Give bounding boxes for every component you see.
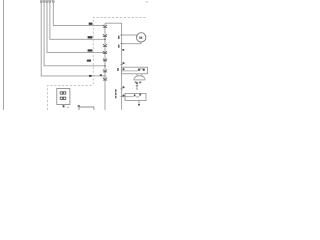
junction dot w4 [104, 39, 106, 40]
svg-text:M: M [139, 36, 142, 40]
wire colour code rot (93) [115, 89, 117, 92]
wire 5 [53, 3, 104, 26]
pointer needle [136, 87, 138, 89]
wire colour code rot (45.6) [118, 45, 120, 48]
wire number label w4 [88, 36, 93, 38]
diode D4 [103, 51, 107, 53]
horn H1 bell [134, 76, 146, 80]
junction wire5-chain [104, 75, 107, 77]
horn label a [135, 82, 137, 83]
control unit A1 box [57, 89, 70, 105]
A1 pin stub [62, 105, 64, 107]
pointer dot [136, 85, 138, 87]
wire 2 [44, 3, 105, 66]
dashed unit boundary right [93, 18, 145, 86]
terminal tick 121/44 [120, 43, 122, 45]
dashed unit boundary bottom left [48, 86, 94, 110]
wire chain top link [105, 23, 122, 110]
A1 pin label [63, 105, 65, 107]
S2 lever arc [136, 96, 140, 98]
motor feed wire upper [122, 34, 137, 36]
margin tick top right [146, 1, 148, 2]
terminal tick 121/35 [120, 34, 122, 36]
S2 actuator [138, 100, 140, 102]
K1 terminal 6 [138, 69, 140, 71]
wire number label w5 [89, 23, 93, 25]
wire 4 [50, 3, 105, 40]
wire number label w2 [87, 60, 91, 62]
S2 terminal L [134, 94, 136, 96]
wire left page border [3, 0, 5, 110]
horn label b [139, 82, 141, 84]
junction dot w3 [104, 52, 106, 53]
S2 terminal R [140, 94, 142, 96]
A1 aux label [67, 107, 69, 108]
diode D2 [103, 34, 107, 36]
horn collar [137, 74, 142, 76]
diode D5 [103, 59, 107, 61]
wire colour code rot (36.8) [118, 36, 120, 39]
pin label 2 (64) [123, 62, 125, 64]
junction label w1b [100, 74, 102, 75]
B1 label [78, 105, 80, 107]
component box bottom B1 [79, 107, 94, 110]
A1 cell row1 right [63, 92, 65, 94]
S2 label 5 [138, 104, 140, 106]
diode chain bus [104, 23, 106, 110]
terminal tick 121/96.7 [120, 96, 122, 98]
A1 cell row1 left [60, 92, 62, 94]
A1 cell row2 left [60, 97, 62, 99]
junction dot w2 [104, 65, 106, 66]
terminal tick 121/88.9 [120, 88, 122, 90]
wire number label w3 [88, 49, 93, 51]
relay box K1 [122, 67, 148, 74]
pin label 2 (87) [123, 86, 125, 88]
S2 feed wire [122, 96, 134, 98]
pin label 1 (95) [123, 95, 125, 97]
pin label (49.8) [122, 49, 124, 51]
diode D1 [103, 25, 107, 27]
motor return wire lower [122, 42, 141, 44]
switch box S2 [125, 94, 146, 101]
relay K1 contact wire [122, 70, 138, 72]
wire 1 [41, 3, 104, 76]
wire number label w1 [89, 75, 92, 77]
diode D7 [103, 78, 107, 81]
motor M circle [137, 33, 146, 42]
connector X1 pin squares [40, 1, 54, 3]
wire colour code rot (69.5) [117, 68, 119, 71]
wire 3 [47, 3, 105, 53]
terminal tick 121/64.5 [120, 64, 122, 66]
K1 bridge [140, 69, 143, 70]
diode D3 [103, 44, 107, 46]
pin label 8 (69) [123, 68, 125, 70]
A1 cell row2 right [63, 97, 65, 99]
label above pointer [136, 82, 138, 84]
diode D6 [103, 69, 107, 72]
K1 terminal 8 [143, 69, 145, 71]
